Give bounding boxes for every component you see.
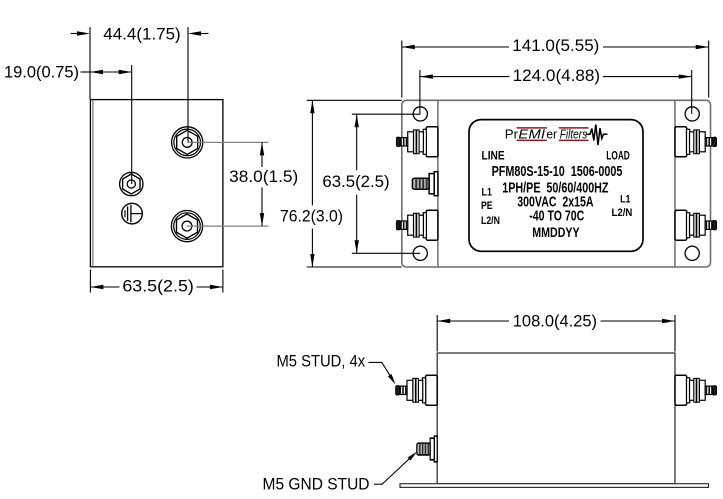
callout M5 GND STUD <box>263 452 418 494</box>
earth ground symbol <box>122 203 143 224</box>
svg-text:er: er <box>546 127 557 142</box>
callout M5 STUD, 4x <box>277 352 396 385</box>
dimension 108.0(4.25) <box>437 312 675 352</box>
bottom view: filter body outline <box>437 353 675 484</box>
dimension 44.4(1.75) <box>71 24 209 142</box>
logo pulse waveform <box>586 125 608 146</box>
svg-text:Filters: Filters <box>560 127 588 142</box>
terminal stud right-top <box>675 127 717 157</box>
svg-text:-40 TO 70C: -40 TO 70C <box>529 209 584 225</box>
terminal stud right-bottom <box>675 210 717 240</box>
ground stud left-middle <box>412 172 438 196</box>
dimension 63.5(2.5) top view <box>322 114 420 253</box>
svg-text:LOAD: LOAD <box>606 148 630 162</box>
svg-text:38.0(1.5): 38.0(1.5) <box>229 167 298 186</box>
dimension 76.2(3.0) <box>280 100 402 267</box>
svg-text:63.5(2.5): 63.5(2.5) <box>122 277 194 296</box>
dimension 141.0(5.55) <box>402 36 709 98</box>
svg-text:EMI: EMI <box>518 127 545 142</box>
dimension 38.0(1.5) <box>187 142 298 226</box>
svg-text:LINE: LINE <box>482 148 505 162</box>
left view flange inner edge line <box>92 100 94 266</box>
svg-text:MMDDYY: MMDDYY <box>532 224 580 240</box>
bottom view base plate <box>400 484 709 488</box>
product label <box>469 120 643 252</box>
terminal stud bottom-view right <box>675 375 717 405</box>
svg-text:M5 STUD, 4x: M5 STUD, 4x <box>277 352 366 371</box>
svg-text:PE: PE <box>481 200 493 212</box>
svg-text:Pr: Pr <box>505 127 519 142</box>
svg-text:L1: L1 <box>620 193 630 205</box>
ground stud bottom-view <box>417 436 437 462</box>
svg-text:19.0(0.75): 19.0(0.75) <box>4 63 79 82</box>
mounting hole top-left <box>413 107 427 121</box>
left view: filter end-face outline <box>90 100 223 267</box>
dimension 63.5(2.5) left view <box>90 270 223 296</box>
top view: filter body outline <box>402 100 711 267</box>
svg-text:76.2(3.0): 76.2(3.0) <box>280 206 343 225</box>
logo PrEMIer Filters <box>505 125 608 146</box>
mounting hole bottom-left <box>413 246 427 260</box>
terminal nut top (L1) <box>172 127 203 158</box>
top view left flange line <box>437 100 439 267</box>
svg-text:M5 GND STUD: M5 GND STUD <box>263 475 370 494</box>
dimension 124.0(4.88) <box>420 66 692 114</box>
terminal stud left-bottom <box>396 210 438 240</box>
svg-text:PFM80S-15-10 1506-0005: PFM80S-15-10 1506-0005 <box>492 163 623 180</box>
svg-text:124.0(4.88): 124.0(4.88) <box>513 66 601 85</box>
svg-text:63.5(2.5): 63.5(2.5) <box>322 172 389 191</box>
mounting hole bottom-right <box>685 246 699 260</box>
terminal stud bottom-view left <box>396 375 438 405</box>
dimension 19.0(0.75) <box>4 63 132 184</box>
top view right flange line <box>674 100 676 267</box>
terminal stud left-top <box>396 127 438 157</box>
svg-text:141.0(5.55): 141.0(5.55) <box>512 36 599 55</box>
ground stud nut (middle-left) <box>120 172 143 195</box>
mounting hole top-right <box>685 107 699 121</box>
svg-text:L2/N: L2/N <box>612 207 633 219</box>
svg-text:L2/N: L2/N <box>481 215 500 227</box>
svg-text:44.4(1.75): 44.4(1.75) <box>103 24 180 43</box>
svg-text:L1: L1 <box>482 186 492 198</box>
terminal nut bottom (L2) <box>171 211 202 242</box>
svg-text:108.0(4.25): 108.0(4.25) <box>513 312 597 331</box>
